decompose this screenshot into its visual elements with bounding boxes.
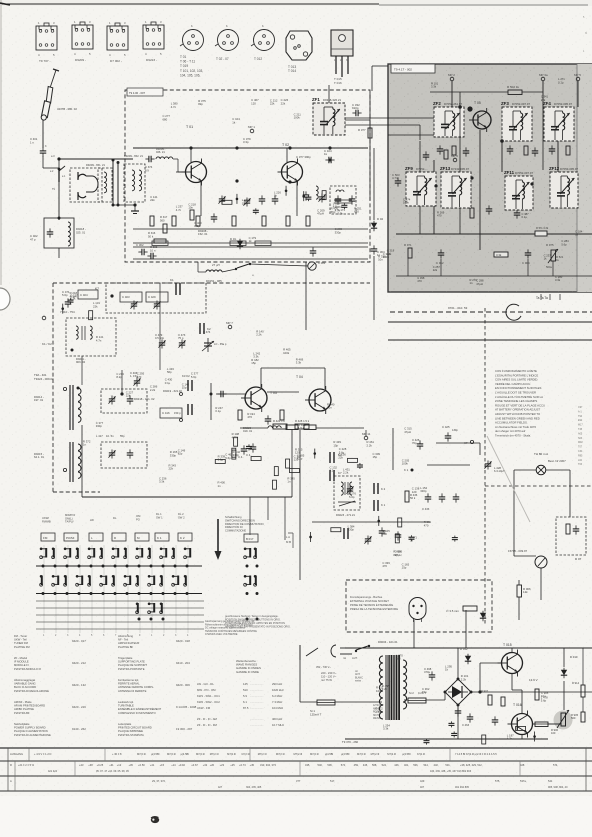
capacitor gray row1 a (423, 151, 430, 160)
svg-text:22k: 22k (541, 98, 546, 102)
wire long horizontal under AM (82, 496, 292, 498)
FM box lower labels (150, 190, 362, 243)
svg-text:T07: T07 (578, 446, 583, 449)
svg-text:22k: 22k (281, 101, 286, 105)
svg-text:R 971: R 971 (404, 243, 412, 247)
band row 3 text (10, 779, 568, 789)
svg-text:IF MODULE: IF MODULE (14, 660, 29, 664)
svg-text:C 403: C 403 (122, 295, 130, 299)
svg-text:D9209 -: D9209 - (75, 58, 86, 62)
resistor R 315 (306, 216, 310, 226)
svg-text:905, 908, 804, 40: 905, 908, 804, 40 (548, 786, 568, 789)
AM section labels (70, 291, 199, 483)
fuse F2 0.2A (408, 698, 426, 703)
wire F2 to bridge (426, 699, 445, 701)
connector lines bottom left of PS (300, 645, 318, 660)
svg-text:429: 429 (420, 779, 425, 783)
mid right extra parts (309, 516, 458, 543)
svg-text:R 377: R 377 (358, 128, 366, 132)
wire to T03 base (216, 393, 245, 395)
svg-text:µ(4.5Bl: µ(4.5Bl (151, 752, 160, 756)
svg-text:22k: 22k (126, 394, 131, 398)
IF amplifier module shaded area (388, 64, 592, 292)
wire R975 down (552, 261, 554, 276)
svg-text:3.3k: 3.3k (296, 361, 302, 365)
svg-text:536,: 536, (413, 763, 418, 767)
tuned circuit of ZF9 (413, 176, 432, 205)
svg-text:S03: S03 (578, 437, 583, 440)
switch matrix contact numbers (43, 634, 189, 637)
svg-text:T 05: T 05 (474, 101, 481, 105)
svg-text:C97: C97 (578, 406, 583, 409)
resistor R 325 (232, 216, 236, 226)
svg-text:15705 - 009.97: 15705 - 009.97 (508, 549, 528, 553)
svg-text:377: 377 (296, 779, 301, 783)
svg-text:......................: ...................... (250, 708, 264, 710)
junction MW coil top (77, 387, 80, 390)
wire to fuse S1 (300, 701, 317, 703)
svg-text:M7(2.3l: M7(2.3l (258, 752, 267, 756)
svg-text:D9218 - 321. 02: D9218 - 321. 02 (134, 397, 155, 401)
svg-text:4.7n: 4.7n (507, 737, 513, 741)
tuned circuit of ZF2 (441, 111, 460, 136)
node spacer lamp (540, 475, 542, 542)
svg-text:M7(2.3l: M7(2.3l (137, 752, 146, 756)
coil L305 (316, 186, 318, 199)
AM mid labels (116, 372, 189, 390)
variable capacitor C474 LC-35a (202, 338, 214, 352)
svg-text:M7(2.3l: M7(2.3l (293, 752, 302, 756)
svg-text:446,: 446, (394, 763, 399, 767)
node spacer3 (159, 415, 161, 497)
wire switch to C081 (250, 264, 308, 266)
trimmer in AM IF (346, 486, 353, 495)
junction near ZF9 (434, 184, 437, 187)
wire K3 branch (210, 383, 212, 420)
capacitor C503 4.7n (395, 177, 402, 186)
svg-text:R 316: R 316 (148, 231, 156, 235)
svg-text:T 02 - 07: T 02 - 07 (216, 57, 229, 61)
svg-text:R 975: R 975 (546, 243, 554, 247)
svg-text:R 317: R 317 (160, 215, 168, 219)
measuring point MP 11 (362, 432, 371, 440)
measuring point MP 2 (448, 73, 455, 81)
svg-text:K1: K1 (170, 278, 174, 282)
tuned circuit of ZF13 (448, 176, 467, 207)
svg-text:64.1. 01: 64.1. 01 (34, 455, 44, 459)
svg-text:T9 4.00 - 007: T9 4.00 - 007 (129, 91, 145, 95)
trimmer C218 (243, 198, 250, 207)
svg-text:K7: K7 (464, 441, 468, 445)
svg-text:428: 428 (520, 763, 525, 767)
svg-text:10 n: 10 n (150, 248, 156, 252)
wire right edge ps a (582, 648, 584, 685)
svg-text:+32: +32 (203, 763, 208, 767)
svg-text:D9151 - 085: D9151 - 085 (206, 279, 222, 283)
svg-text:574,: 574, (553, 763, 558, 767)
FM box extra parts (222, 186, 347, 215)
wire secondary to F2 (404, 699, 408, 701)
resistor R914 right edge (581, 685, 585, 697)
svg-text:MP 1: MP 1 (248, 125, 255, 129)
svg-text:531,: 531, (445, 763, 450, 767)
svg-text:R: R (10, 763, 12, 767)
resistor R902 220 (501, 697, 505, 706)
osc area labels (251, 329, 303, 365)
switch matrix row 3 partial (136, 602, 165, 620)
resistor R432 1k (286, 425, 298, 430)
switch M contact mid (188, 404, 192, 415)
svg-text:Abstimmaggregat: Abstimmaggregat (14, 678, 35, 682)
capacitor C110 (349, 195, 356, 204)
svg-text:5.6p: 5.6p (225, 456, 231, 460)
svg-text:3.3k: 3.3k (383, 727, 389, 731)
bridge rectifier (444, 678, 473, 707)
coil transformer primary (132, 170, 135, 191)
svg-text:LC - 35a p: LC - 35a p (214, 342, 227, 346)
node spacer5 (411, 455, 413, 497)
power supply top rail (345, 647, 592, 649)
coil input middle (268, 426, 281, 428)
capacitor C104 1k (325, 157, 334, 164)
svg-text:22k: 22k (338, 456, 343, 460)
wire T016 collector up (521, 690, 523, 713)
svg-text:3.3p: 3.3p (243, 140, 249, 144)
wire jack down to transformer (58, 182, 60, 220)
svg-text:ZF9: ZF9 (405, 166, 413, 171)
LW tuning sub-box (101, 442, 147, 468)
wire to matrix c (284, 497, 286, 540)
svg-text:9410 - 204: 9410 - 204 (176, 661, 190, 665)
wire into bridge left (444, 692, 446, 700)
wire a3 to jack (58, 159, 60, 168)
capacitor C904 (525, 249, 532, 258)
wire FM box down to K2 area (305, 262, 307, 330)
mains plug symbol (331, 645, 352, 657)
wire trimmer rail (427, 464, 470, 466)
resistor R905 560 (535, 689, 539, 700)
svg-text:D7052-...: D7052-... (416, 167, 428, 171)
svg-text:ENSEMBLE D ENREGISTREMENT: ENSEMBLE D ENREGISTREMENT (118, 707, 162, 711)
node sp matrix (299, 430, 301, 497)
measuring point MP 7 (226, 321, 233, 329)
svg-text:15p: 15p (251, 361, 256, 365)
junction rail b (288, 146, 291, 149)
svg-text:LW: LW (90, 518, 94, 522)
svg-text:KW1 - SW1 - OC1: KW1 - SW1 - OC1 (197, 694, 220, 698)
wire ZF1 to C332 (345, 119, 370, 121)
svg-text:MW - PO - OM: MW - PO - OM (197, 688, 216, 692)
capacitor C402 (47, 228, 54, 237)
switch matrix row 1 (40, 547, 191, 558)
wire T03 to T04 (267, 391, 299, 393)
capacitor C325 (272, 195, 279, 204)
standalone switch header box B017 (244, 534, 258, 542)
capacitor C423 (250, 443, 257, 452)
svg-text:M7(2.3l: M7(2.3l (387, 752, 396, 756)
trimmer C417 LW (108, 450, 115, 459)
wire lower mid rail (312, 521, 430, 523)
svg-text:FM - Tuner: FM - Tuner (14, 634, 27, 638)
wire choke out (173, 158, 178, 160)
wire pair input resonator (112, 159, 120, 207)
svg-text:29, 37, 372,: 29, 37, 372, (152, 779, 166, 783)
transistor T04 (305, 386, 331, 414)
svg-text:C 4..: C 4.. (238, 455, 244, 459)
IF transformer ZF12 (550, 172, 578, 208)
box C416 150p (160, 408, 182, 418)
svg-text:4.7n: 4.7n (171, 105, 177, 109)
wire R006 down (518, 597, 520, 620)
node spacer9 (480, 660, 499, 666)
svg-text:PIASTRA DI REGOLAZIONE: PIASTRA DI REGOLAZIONE (14, 689, 49, 693)
svg-text:100k: 100k (376, 689, 383, 693)
svg-text:4.7n: 4.7n (176, 208, 182, 212)
ferrite antenna MW coil (70, 385, 81, 430)
AM tuner dashed enclosure (53, 283, 370, 492)
capacitor ZF4 stage (549, 145, 556, 154)
svg-text:445,: 445, (363, 763, 368, 767)
IF transformer ZF13 (441, 172, 471, 208)
node spacer ps up (497, 560, 499, 648)
mains voltage text (321, 671, 337, 682)
svg-text:+45: +45 (250, 763, 255, 767)
wire MP2 down (451, 81, 453, 120)
svg-text:56p: 56p (167, 370, 172, 374)
wire MW down (81, 425, 83, 497)
wire ZF4 to ZF12 (557, 141, 559, 172)
svg-text:L A: L A (286, 535, 290, 539)
switch matrix bus row 2 with junctions (36, 592, 202, 595)
wire ZF1 to ZF2 a (345, 117, 434, 119)
right margin part list column (578, 406, 583, 466)
svg-text:ZF - Modul: ZF - Modul (14, 656, 27, 660)
capacitor C434 (439, 493, 446, 502)
svg-text:R 502 1k: R 502 1k (507, 85, 520, 89)
IF transformer ZF1 (313, 103, 345, 135)
svg-text:M7(2.3l: M7(2.3l (371, 752, 380, 756)
wire right edge ps b (582, 697, 584, 712)
diode D02 (371, 221, 377, 231)
transformer winding note (373, 705, 384, 720)
trimmer C408 (153, 301, 160, 310)
svg-text:47µH: 47µH (395, 553, 402, 557)
junction mixer in (120, 392, 123, 395)
coil 27µH (206, 263, 222, 272)
junction ZF3 bottom (500, 139, 504, 143)
svg-text:1n: 1n (217, 484, 221, 488)
resistor R502 (508, 90, 522, 95)
svg-text:0.1µ: 0.1µ (215, 409, 221, 413)
transistor T03 (241, 384, 267, 412)
wire lamp left corner down (513, 470, 515, 556)
svg-text:+ 4.9 V ± 1.2 D: + 4.9 V ± 1.2 D (34, 752, 51, 756)
svg-text:A: A (10, 779, 12, 783)
mains transformer (379, 655, 406, 720)
wire K1K2 to MW (81, 356, 83, 385)
svg-text:104, 105, 106,: 104, 105, 106, (180, 73, 200, 77)
parts table left (14, 634, 197, 737)
tuned circuit of ZF3 (509, 111, 528, 140)
wire to MP11 (316, 427, 364, 429)
svg-text:K 2: K 2 (180, 536, 185, 540)
svg-text:A-1: A-1 (578, 410, 582, 413)
svg-text:AMPLIFICATEUR: AMPLIFICATEUR (118, 641, 139, 645)
wire dashed rail 9701-010.53 (390, 311, 592, 313)
transistor can bottom view (251, 24, 275, 51)
switching direction arrow (215, 519, 222, 560)
svg-text:D7052-095.97: D7052-095.97 (554, 102, 572, 106)
mixer area labels (215, 402, 380, 472)
svg-text:145: 145 (243, 682, 248, 686)
svg-text:+45: +45 (128, 763, 133, 767)
package outline D9209 - (72, 20, 93, 56)
AM top parts (61, 298, 92, 320)
svg-text:537a,: 537a, (520, 779, 527, 783)
svg-text:D7232-095.97: D7232-095.97 (451, 167, 469, 171)
svg-text:T 02: T 02 (282, 143, 289, 147)
resistor mid gray (470, 208, 474, 218)
svg-text:KW2 - SW2 - OC2: KW2 - SW2 - OC2 (197, 700, 220, 704)
wire Ta tick 1 (540, 294, 542, 300)
svg-text:574,: 574, (341, 763, 346, 767)
svg-text:D9318-326.21: D9318-326.21 (323, 98, 341, 102)
junction rail c (328, 146, 331, 149)
top border ink blob (0, 3, 10, 5)
switch matrix bus row 1 with junctions (36, 565, 202, 568)
IF transformer ZF3 (502, 107, 532, 141)
svg-text:+41: +41 (150, 763, 155, 767)
wire to meter (514, 555, 536, 557)
svg-text:470: 470 (424, 523, 429, 527)
svg-text:+14: +14 (171, 763, 176, 767)
svg-text:µ(4.5Bl: µ(4.5Bl (341, 752, 350, 756)
FM input coil sub-box 1 (98, 168, 112, 202)
svg-text:120: 120 (251, 101, 256, 105)
label T9 4.00-007 (127, 88, 163, 96)
svg-text:47µH: 47µH (476, 282, 483, 286)
svg-text:575,: 575, (495, 779, 500, 783)
resistor R316 (154, 239, 166, 243)
FM tuner dashed enclosure T9 4.00-007 (125, 90, 370, 262)
wire dashed vertical right (484, 308, 486, 625)
power supply labels (375, 653, 548, 740)
svg-text:b7(2.3l: b7(2.3l (242, 752, 250, 756)
svg-text:120: 120 (295, 451, 300, 455)
capacitor C302b (147, 253, 156, 260)
capacitor C370 (211, 213, 218, 222)
svg-text:541: 541 (548, 779, 553, 783)
svg-text:D 012: D 012 (460, 647, 468, 651)
capacitor MW pad (127, 395, 134, 404)
node spacer ps up2 (564, 600, 566, 648)
svg-text:weiss: weiss (355, 680, 362, 683)
svg-text:5.9: 5.9 (243, 694, 247, 698)
IF transformer ZF2 (434, 107, 464, 137)
svg-text:T 016: T 016 (334, 81, 342, 85)
terminal L LW (63, 468, 66, 471)
wire long rail B (388, 339, 592, 341)
trimmer L428 core (484, 461, 491, 470)
svg-text:22k: 22k (150, 198, 155, 202)
node spacer4 (0, 321, 592, 323)
svg-text:LW - GO - DL: LW - GO - DL (197, 682, 214, 686)
wire ZF1 to gray b (345, 124, 420, 126)
sheet top border line right (379, 4, 588, 6)
svg-text:T 015: T 015 (503, 643, 512, 647)
standalone switch contacts (244, 547, 259, 620)
svg-text:2.2k: 2.2k (256, 332, 262, 336)
socket symbol (409, 598, 426, 623)
wire R900 to pot (548, 723, 561, 725)
svg-text:R 422 1 k: R 422 1 k (273, 419, 285, 423)
svg-text:1n: 1n (287, 480, 291, 484)
svg-text:019. 01: 019. 01 (243, 429, 253, 433)
capacitor C512 (463, 147, 470, 156)
svg-text:+25: +25 (230, 763, 235, 767)
svg-text:510: 510 (243, 688, 248, 692)
telescopic antenna (41, 69, 59, 120)
resistor ZF3 stage (524, 146, 528, 155)
node spacer11 (452, 632, 454, 660)
junction transformer bottom (133, 203, 136, 206)
svg-text:M7(2.3l: M7(2.3l (167, 752, 176, 756)
svg-text:9701 - 010. 53: 9701 - 010. 53 (448, 306, 468, 310)
fuse S1 125mA (317, 700, 335, 705)
svg-text:47µH: 47µH (317, 211, 324, 215)
trimmer C209 (218, 196, 225, 205)
svg-text:0.1µ: 0.1µ (194, 224, 200, 228)
svg-text:Schaltrichtung: Schaltrichtung (225, 515, 242, 519)
svg-text:E92: E92 (578, 419, 583, 422)
svg-text:M7(2.3l: M7(2.3l (196, 752, 205, 756)
svg-text:9420 - 006: 9420 - 006 (176, 683, 190, 687)
junction rail a (235, 146, 238, 149)
junction rail d (189, 146, 192, 149)
switch K1 contact upper (176, 283, 180, 295)
svg-text:10.7 MHz: 10.7 MHz (272, 723, 285, 727)
svg-text:13.9 V: 13.9 V (529, 678, 538, 682)
svg-text:7 610 - 754: 7 610 - 754 (60, 310, 75, 314)
resistor R 312 (196, 216, 200, 226)
wire socket down to PS rail (413, 620, 415, 648)
wire to 27µH (198, 271, 206, 273)
svg-text:T9 4.1T - 002: T9 4.1T - 002 (394, 68, 412, 72)
FM box upper labels (162, 98, 301, 124)
svg-text:Leiterplatte: Leiterplatte (118, 722, 132, 726)
pin ticks T015 package (334, 60, 348, 62)
svg-text:435,: 435, (305, 763, 310, 767)
node sp (522, 651, 564, 653)
node spacerT2 (303, 160, 345, 168)
svg-text:1620 kHz: 1620 kHz (272, 688, 284, 692)
node spacer12 (540, 600, 542, 645)
svg-text:EXTERNAL VOLTAGE SOCKET: EXTERNAL VOLTAGE SOCKET (350, 599, 389, 603)
speck mark bottom left (151, 817, 159, 823)
resistor R 376 (150, 216, 154, 226)
wire top right ps (560, 647, 583, 649)
svg-text:T 012: T 012 (254, 57, 262, 61)
svg-text:2.2k: 2.2k (150, 388, 156, 392)
multilingual battery note text (495, 369, 545, 438)
svg-text:MODULE FI: MODULE FI (14, 663, 29, 667)
wire FM box bus 1 (133, 228, 368, 230)
wire to T016 col (512, 689, 522, 691)
wire to D010 (563, 648, 565, 667)
capacitor C332 (352, 110, 361, 117)
svg-text:680: 680 (354, 210, 359, 214)
svg-text:56 k: 56 k (410, 496, 416, 500)
